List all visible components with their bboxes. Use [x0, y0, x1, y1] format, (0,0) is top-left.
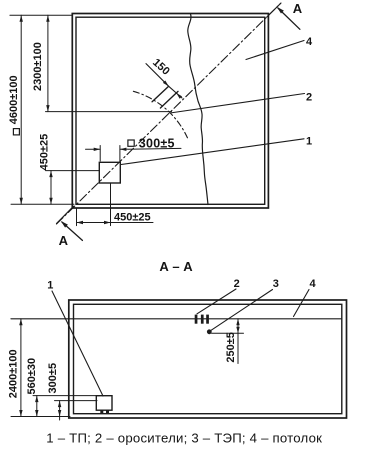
section arrow A top-right — [278, 8, 300, 29]
ТЭП level extension line — [212, 332, 244, 334]
dimension 560±30 line — [36, 396, 38, 417]
bottom extension line — [11, 203, 74, 205]
svg-text:250±5: 250±5 — [225, 332, 237, 363]
ceiling line потолок section with left extension — [11, 318, 342, 320]
svg-text:300±5: 300±5 — [139, 137, 175, 151]
dimension 450±25 bottom extension lines — [76, 208, 78, 226]
section room inner wall — [74, 304, 342, 413]
top extension line — [10, 14, 72, 16]
svg-text:2400±100: 2400±100 — [8, 349, 20, 398]
dimension 2400±100 line — [20, 319, 22, 417]
svg-text:1: 1 — [47, 280, 53, 292]
dimension 4600±100 line — [20, 15, 22, 204]
room outline plan outer wall — [72, 14, 268, 209]
dimension 450±25 left line — [50, 171, 52, 205]
leader line label 1 section — [52, 291, 103, 396]
dimension 2300±100 line — [47, 15, 49, 111]
svg-text:2300±100: 2300±100 — [32, 42, 44, 91]
dimension 150 line and arrows — [146, 64, 169, 87]
svg-text:2: 2 — [234, 278, 240, 290]
box mid extension line — [55, 400, 98, 402]
section cut line A-A diagonal dash-dot — [57, 3, 282, 224]
ТЭП dot — [207, 329, 212, 334]
section line solid end bottom-left — [57, 206, 74, 223]
svg-text:450±25: 450±25 — [114, 212, 151, 224]
svg-text:2: 2 — [306, 91, 312, 103]
dimension 300±5 section line — [59, 401, 61, 420]
leader line label 3 section — [211, 290, 273, 331]
svg-text:300±5: 300±5 — [47, 363, 59, 394]
svg-text:А: А — [59, 233, 69, 248]
svg-text:А: А — [293, 1, 303, 16]
leader line label 1 plan — [121, 139, 304, 165]
floor extension line section — [11, 416, 70, 418]
ТП square plan — [99, 162, 120, 183]
dimension 300±5 line and arrows — [86, 148, 101, 150]
dimension text □4600±100 — [13, 129, 19, 135]
svg-text:560±30: 560±30 — [26, 358, 38, 395]
svg-text:4: 4 — [306, 36, 313, 48]
svg-text:4: 4 — [309, 278, 316, 290]
leader line label 2 section — [197, 289, 236, 314]
mid extension line sprinkler level — [46, 111, 172, 113]
leader line label 4 section — [294, 290, 310, 317]
svg-text:1: 1 — [306, 135, 312, 147]
section room outer wall — [69, 300, 347, 418]
room outline plan inner wall — [76, 17, 265, 204]
dimension text □300±5 — [128, 140, 134, 146]
sprinkler symbols section — [195, 315, 198, 324]
sprinkler tick 2 — [160, 91, 178, 108]
leader line label 4 plan — [246, 41, 304, 60]
dimension 300±5 extension lines — [99, 146, 101, 162]
svg-text:450±25: 450±25 — [39, 134, 51, 171]
svg-text:А – А: А – А — [159, 259, 193, 274]
sprinkler tick 1 — [152, 87, 168, 102]
ТП box legs — [100, 410, 103, 414]
ТП box section — [96, 396, 112, 411]
sprinkler arc dash-dot — [133, 91, 187, 138]
section line solid end top-right — [267, 4, 281, 18]
svg-text:4600±100: 4600±100 — [8, 75, 20, 124]
box top extension line — [33, 395, 100, 397]
dimension 250±5 line — [237, 319, 239, 364]
section arrow A bottom-left — [62, 222, 82, 240]
svg-text:150: 150 — [150, 56, 172, 77]
leader line label 2 plan — [170, 94, 305, 114]
ceiling break wavy line (потолок, plan) — [188, 14, 208, 205]
svg-text:3: 3 — [273, 278, 279, 290]
svg-text:1 – ТП; 2 – оросители; 3 – ТЭП: 1 – ТП; 2 – оросители; 3 – ТЭП; 4 – пото… — [46, 431, 322, 446]
ТП level extension line — [46, 170, 100, 172]
dimension 450±25 bottom line and arrows — [77, 222, 154, 224]
